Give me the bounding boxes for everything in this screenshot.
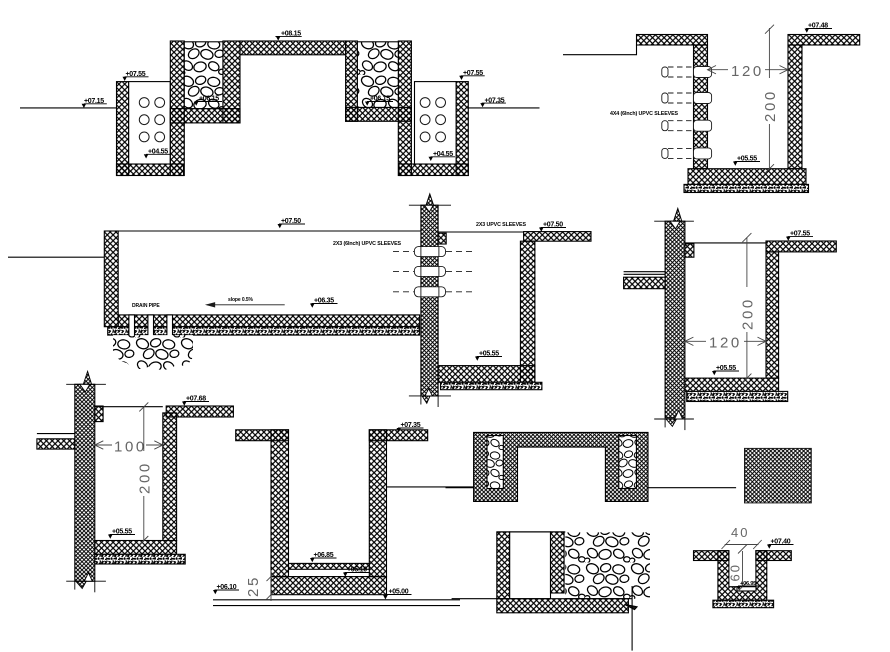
center slab	[240, 41, 346, 55]
ground line left	[446, 487, 474, 489]
pit top opening line	[685, 242, 768, 244]
svg-text:120: 120	[731, 63, 764, 80]
label +06.15 left tower	[194, 96, 222, 106]
drain pipe 1	[129, 315, 135, 338]
svg-text:40: 40	[731, 525, 749, 540]
structure H : cover slab with gravel drains (bottom-center-right)	[446, 432, 737, 501]
right wall	[369, 430, 386, 577]
ground line right	[468, 107, 539, 109]
tower L right wall	[223, 41, 240, 123]
label +08.15 top center	[275, 30, 301, 40]
tower R gravel fill	[357, 42, 398, 108]
label +05.55 (E floor)	[712, 365, 739, 375]
structure K : small drainage channel (bottom-right)	[694, 551, 792, 608]
lean strip	[95, 554, 185, 564]
gravel base line	[565, 598, 632, 600]
step notch	[685, 244, 694, 257]
wall break symbol bottom	[66, 573, 106, 593]
right top slab	[369, 430, 427, 441]
chamber L pipe openings	[139, 98, 164, 142]
pit right top slab	[524, 232, 591, 242]
wall break symbol bottom	[409, 389, 451, 408]
ground line far left	[8, 256, 104, 258]
dim 200 vertical	[765, 25, 774, 174]
label +07.35 (G top)	[397, 422, 424, 432]
label +07.55 (E top)	[786, 231, 813, 241]
gravel strip left	[487, 436, 503, 489]
label +07.48	[805, 23, 833, 33]
ground line 2	[213, 605, 460, 607]
svg-text:120: 120	[709, 335, 742, 352]
left protrusion line	[37, 433, 75, 435]
label +05.55 (F floor)	[108, 529, 135, 539]
label +07.15	[82, 98, 107, 108]
right top slab	[788, 35, 860, 46]
left protrusion slab	[624, 277, 666, 289]
vertical reference line	[631, 586, 633, 651]
svg-text:200: 200	[137, 461, 154, 494]
structure G : open channel (bottom-center)	[213, 430, 474, 606]
trench floor slab	[118, 315, 419, 327]
dim 60 vertical (K)	[738, 545, 747, 592]
label +05.10	[343, 567, 370, 577]
earth retaining wall	[409, 194, 591, 407]
screed strip inside channel	[289, 563, 370, 569]
tower R slab under gravel	[346, 107, 412, 121]
svg-text:200: 200	[740, 297, 757, 330]
left wall	[497, 532, 510, 599]
structure I : soakaway box with gravel (bottom-center)	[452, 532, 650, 651]
chamber R inner box	[415, 82, 457, 164]
gravel strip right	[619, 436, 637, 489]
label +06.85	[310, 552, 337, 562]
chamber L bottom wall	[117, 164, 184, 176]
chamber R bottom wall	[399, 164, 468, 176]
screed strip in channel base	[737, 587, 756, 591]
dim 200 vertical (F)	[139, 402, 148, 545]
right wall	[788, 45, 802, 169]
structure E : pit with earth wall (middle-right)	[624, 208, 837, 430]
channel U block	[718, 551, 767, 601]
drain pipe 2	[148, 315, 154, 338]
ground line 1	[213, 599, 460, 601]
dim 40 horizontal (K)	[722, 540, 762, 549]
label +07.55 right	[459, 70, 485, 80]
connection line to right detail	[387, 486, 474, 488]
ground line left of pit	[563, 45, 637, 55]
lean strip	[687, 391, 788, 401]
dim 120 horizontal	[708, 66, 789, 74]
svg-text:60: 60	[728, 563, 743, 581]
label +07.40 (K)	[767, 539, 794, 549]
structure C : long drainage trench (middle-left)	[8, 231, 421, 338]
label +04.55 left	[144, 149, 170, 159]
svg-text:2X3 (6Inch) UPVC SLEEVES: 2X3 (6Inch) UPVC SLEEVES	[333, 241, 402, 247]
right top slab	[756, 551, 791, 561]
pit floor slab	[685, 378, 779, 391]
label +06.15 right tower	[365, 96, 393, 106]
tower L slab under gravel	[170, 109, 240, 123]
pit top opening line	[438, 231, 523, 233]
label +04.55 right	[429, 151, 456, 161]
label +05.55 pit floor	[475, 351, 502, 361]
4x4 UPVC sleeves through left wall	[662, 67, 712, 159]
label +05.55 pit floor	[733, 156, 760, 166]
drain pipe 3	[167, 315, 173, 338]
svg-text:slope 0.5%: slope 0.5%	[228, 297, 253, 303]
label +07.68 (F top)	[182, 396, 209, 406]
dashed construction joint line	[271, 576, 387, 578]
step notch	[438, 233, 446, 244]
tower R left wall	[346, 41, 358, 121]
pit right wall	[163, 413, 177, 541]
tower R right wall	[398, 41, 411, 176]
pit right top slab	[766, 241, 836, 252]
lean strip under pit	[441, 382, 542, 389]
dim 100 horizontal (F)	[95, 441, 163, 449]
label +06.10	[213, 584, 239, 594]
chamber L inner box	[129, 82, 171, 164]
ground line left	[20, 107, 117, 109]
dim 120 horizontal (E)	[685, 337, 766, 345]
pit right wall	[520, 241, 535, 382]
label +07.50 pit top	[539, 222, 566, 232]
slope arrow	[207, 303, 285, 307]
label +07.50 trench top	[278, 218, 306, 228]
label +07.35 right ground	[480, 97, 506, 107]
gravel backfill	[565, 532, 650, 598]
svg-text:25: 25	[245, 575, 262, 597]
left approach line	[452, 598, 497, 600]
left protrusion pipe lines	[624, 271, 666, 273]
left protrusion slab	[37, 439, 75, 449]
left top slab	[236, 430, 289, 441]
chamber L left wall	[117, 82, 129, 176]
outer block	[474, 432, 648, 501]
svg-text:2X3 UPVC SLEEVES: 2X3 UPVC SLEEVES	[476, 222, 526, 228]
bottom slab	[688, 169, 806, 185]
dim 25 vertical (G)	[267, 570, 276, 601]
gravel mound under drain pipes	[113, 335, 193, 370]
structure J : concrete block detail (right)	[745, 448, 812, 503]
chamber R pipe openings	[420, 98, 445, 142]
wall break symbol bottom	[654, 411, 694, 431]
earth wall	[665, 221, 685, 418]
wall break symbol top	[409, 194, 451, 212]
label +06.35 trench floor	[310, 298, 338, 308]
ground line right	[648, 487, 736, 489]
label +05.00	[383, 589, 412, 600]
structure A : twin manholes with gravel towers (top-left)	[20, 41, 540, 176]
trench top opening line	[104, 230, 421, 232]
pit top opening line	[95, 406, 163, 408]
trench left wall	[104, 231, 118, 327]
left wall	[694, 45, 708, 169]
bottom slab	[271, 577, 387, 595]
pit floor slab	[95, 541, 177, 555]
inner box	[510, 532, 551, 599]
2x3 sleeves through wall	[393, 247, 473, 297]
chamber R right wall	[456, 82, 468, 176]
top line	[497, 531, 566, 533]
left top slab	[694, 551, 729, 561]
lean strip	[713, 600, 774, 608]
svg-text:200: 200	[762, 89, 779, 122]
left top slab	[637, 35, 708, 46]
pit floor slab	[438, 366, 535, 383]
svg-text:DRAIN PIPE: DRAIN PIPE	[132, 303, 160, 309]
svg-text:100: 100	[114, 439, 147, 456]
wall break symbol top	[654, 208, 694, 229]
lean concrete strip	[684, 184, 809, 192]
dim 200 vertical (E)	[742, 233, 751, 383]
label +06.95 (K floor)	[737, 581, 759, 590]
step notch	[95, 406, 103, 422]
inner right wall	[551, 532, 565, 593]
earth wall	[75, 384, 95, 581]
pit right wall	[766, 252, 779, 378]
bottom slab	[497, 599, 629, 613]
structure F : pit with earth wall (bottom-left)	[37, 371, 234, 592]
svg-text:4X4 (6Inch) UPVC SLEEVES: 4X4 (6Inch) UPVC SLEEVES	[610, 111, 679, 117]
left wall	[271, 430, 289, 577]
leader arrow at slab end	[625, 604, 638, 609]
pit right top slab	[166, 406, 233, 417]
tower L left wall	[170, 41, 184, 176]
lean concrete strip under floor	[108, 327, 420, 335]
label +07.55 left	[123, 71, 149, 81]
wall break symbol top	[66, 371, 106, 392]
structure B : sleeve pit (top-right)	[563, 35, 860, 193]
tower L gravel fill	[184, 42, 223, 109]
